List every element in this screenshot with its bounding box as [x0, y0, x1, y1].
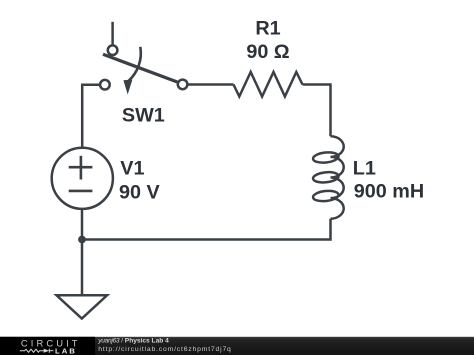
svg-text:yuanj63 / Physics Lab 4: yuanj63 / Physics Lab 4	[97, 338, 169, 345]
svg-text:R1: R1	[255, 18, 280, 40]
svg-text:LAB: LAB	[55, 347, 77, 355]
svg-text:http://circuitlab.com/ct6zhpmt: http://circuitlab.com/ct6zhpmt7dj7q	[98, 346, 231, 353]
svg-text:90 V: 90 V	[119, 181, 160, 203]
svg-text:L1: L1	[353, 158, 376, 180]
svg-text:90 Ω: 90 Ω	[246, 41, 289, 63]
svg-text:SW1: SW1	[122, 104, 165, 126]
svg-text:V1: V1	[120, 158, 144, 180]
svg-text:900 mH: 900 mH	[354, 181, 424, 203]
